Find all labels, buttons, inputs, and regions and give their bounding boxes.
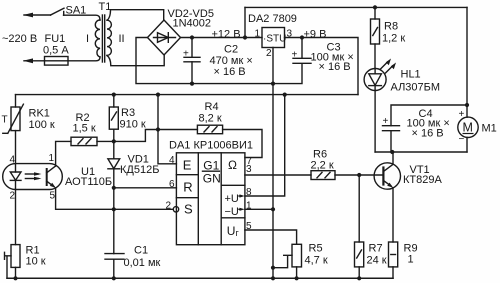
capacitor C4: [383, 126, 400, 152]
wire: secondary top to bridge top vertex: [107, 10, 164, 21]
svg-text:КД512Б: КД512Б: [120, 164, 159, 176]
wire: R7 bottom to bus: [358, 267, 360, 278]
wire: net from R3/R2 junction up to R4 line: [114, 130, 198, 142]
svg-text:24 к: 24 к: [367, 255, 387, 267]
thermistor RK1: [3, 104, 24, 133]
svg-text:2: 2: [10, 191, 16, 202]
resistor R2: [71, 137, 97, 145]
diode VD1: [108, 141, 120, 187]
wire: DA1 pin 1 to ground vertical: [245, 208, 273, 210]
svg-text:−: −: [459, 134, 465, 145]
wire: R5 bottom to bus: [296, 267, 298, 278]
svg-text:1: 1: [408, 254, 414, 266]
svg-text:S: S: [184, 202, 193, 217]
wire: R8 to HL1: [374, 44, 376, 69]
junction C1 at bus: [112, 276, 116, 280]
svg-text:FU1: FU1: [45, 33, 66, 45]
svg-text:1,2 к: 1,2 к: [382, 33, 405, 45]
wire: fuse to primary bottom: [68, 57, 100, 61]
junction VD1/pin6: [112, 186, 116, 190]
fuse FU1: [45, 57, 69, 66]
svg-text:КТ829А: КТ829А: [403, 174, 442, 186]
svg-text:+: +: [383, 116, 389, 127]
wire: riser from +9V bus through R4 node down to DA1 pin 4: [158, 95, 176, 164]
svg-text:+12 В: +12 В: [212, 28, 241, 40]
wire: R6 to base junction: [335, 174, 383, 176]
junction R7 at bus: [357, 276, 361, 280]
wire: DA1 pin 5 to R5: [245, 230, 297, 244]
junction at C2 top: [190, 35, 194, 39]
svg-text:Ω: Ω: [228, 158, 237, 172]
junction R5 at bus: [295, 276, 299, 280]
junction at C3 top: [300, 35, 304, 39]
svg-text:1: 1: [49, 153, 55, 164]
motor M underline: [463, 133, 474, 135]
svg-text:4,7 к: 4,7 к: [305, 255, 328, 267]
wire: C1 top lead: [113, 209, 115, 253]
svg-text:R5: R5: [309, 243, 323, 255]
wire: DA2 pin 2 ground vertical down to bottom bus: [272, 48, 274, 279]
svg-text:2: 2: [166, 201, 172, 212]
svg-text:+: +: [292, 50, 298, 61]
svg-text:C1: C1: [134, 245, 148, 257]
svg-text:10 к: 10 к: [26, 256, 46, 268]
wire: opto pin 1 up to R2: [56, 141, 71, 166]
resistor R5: [292, 244, 302, 267]
svg-text:+: +: [183, 49, 189, 60]
svg-text:RK1: RK1: [29, 108, 50, 120]
capacitor C3: [293, 38, 311, 64]
wire: bridge minus (left vertex) down and along to C3 bottom: [136, 38, 302, 84]
svg-text:1: 1: [255, 29, 261, 40]
wire: R7 top to base junction: [358, 175, 360, 242]
svg-text:SA1: SA1: [66, 4, 87, 16]
switch SA1 contact tick: [63, 12, 65, 16]
LED HL1: [364, 69, 386, 91]
resistor R7: [355, 242, 364, 267]
svg-text:1,5 к: 1,5 к: [73, 123, 96, 135]
junction pin1 ground: [271, 207, 275, 211]
wire: opto pin 2 LED cathode down to R1: [15, 180, 17, 244]
svg-text:0,01 мк: 0,01 мк: [124, 257, 161, 269]
junction pin2/pin5 line: [112, 207, 116, 211]
wire: R9 bottom to bus end: [392, 267, 394, 278]
switch SA1 blade: [51, 8, 65, 15]
svg-text:R: R: [183, 180, 192, 195]
svg-text:1N4002: 1N4002: [173, 17, 212, 29]
svg-text:5: 5: [246, 221, 252, 232]
capacitor C2: [184, 38, 200, 84]
junction ground vertical at bus: [271, 276, 275, 280]
svg-text:T1: T1: [99, 1, 112, 13]
HL1 emission arrows: [381, 59, 397, 74]
resistor R4: [197, 125, 222, 134]
resistor R6: [311, 171, 335, 180]
wire: R2 right to R3 net: [97, 140, 114, 142]
svg-text:I: I: [86, 33, 89, 45]
junction at R8 top: [373, 5, 377, 9]
optocoupler U1 LED: [10, 172, 21, 180]
svg-text:АЛ307БМ: АЛ307БМ: [391, 82, 441, 94]
resistor R1: [11, 245, 20, 268]
resistor R8: [371, 7, 380, 44]
svg-text:4: 4: [169, 155, 175, 166]
voltage regulator DA2 7809 box: [262, 28, 285, 48]
junction R2/R3/VD1: [112, 139, 116, 143]
optocoupler light arrows: [25, 172, 41, 180]
wire: vertical between pin6 node and pin2 node: [113, 188, 115, 210]
wire: bottom common bus: [7, 277, 393, 279]
junction at R4 riser: [156, 93, 160, 97]
svg-text:8: 8: [246, 187, 252, 198]
junction at DA2 pin2 ground line: [271, 82, 275, 86]
wire: R4 right down to DA1 pin 7: [223, 130, 262, 158]
svg-text:8,2 к: 8,2 к: [199, 113, 222, 125]
junction collector/C4: [390, 150, 394, 154]
wire: mains bottom line with arrow (to fuse): [23, 58, 45, 63]
svg-text:GN: GN: [203, 171, 221, 185]
svg-text:5: 5: [50, 191, 56, 202]
wire: to DA1 pin 6: [114, 187, 177, 189]
svg-text:× 16 В: × 16 В: [319, 61, 351, 73]
wire: DA1 pin 8 right and up to +9V bus: [245, 95, 285, 196]
svg-text:+9 В: +9 В: [304, 28, 327, 40]
svg-text:G1: G1: [203, 158, 219, 172]
svg-text:R8: R8: [384, 21, 398, 33]
svg-text:·STU: ·STU: [263, 34, 286, 45]
junction at DA1 pin8 riser: [283, 93, 287, 97]
svg-text:3: 3: [246, 164, 252, 175]
svg-text:II: II: [119, 33, 125, 45]
svg-text:2,2 к: 2,2 к: [311, 160, 334, 172]
svg-text:910 к: 910 к: [120, 118, 146, 130]
wire: secondary bottom to bridge bottom vertex: [107, 55, 164, 65]
wire: RK1 to optocoupler LED anode pin 4: [15, 131, 17, 172]
DA1 -U pin arrow: [239, 208, 245, 211]
junction at C2 bottom: [190, 82, 194, 86]
wire: left vertical to RK1: [15, 95, 17, 107]
transformer T1 primary winding I: [95, 20, 100, 57]
junction R1 at bottom bus: [13, 276, 17, 280]
transformer T1 secondary winding II: [107, 20, 111, 55]
svg-text:АОТ110Б: АОТ110Б: [65, 176, 112, 188]
svg-text:E: E: [183, 157, 192, 172]
svg-text:100 к: 100 к: [29, 119, 55, 131]
timer DA1 KR1006VI1 box: [176, 153, 245, 245]
svg-text:2: 2: [266, 48, 272, 59]
wire: collector line (motor minus rail): [375, 151, 467, 153]
DA1 pin 2 inversion bubble: [173, 207, 178, 212]
svg-text:~220 В: ~220 В: [2, 33, 37, 45]
svg-text:−U: −U: [225, 206, 239, 218]
svg-text:+U: +U: [225, 193, 239, 205]
wire: opto pin 5 down and right to DA1 pin 2: [56, 188, 174, 209]
svg-text:1: 1: [246, 201, 252, 212]
junction R5 tap at ground vertical: [271, 266, 275, 270]
wire: DA2 output +9V to right corner: [285, 38, 359, 95]
wire: VT1 collector up to motor line: [392, 152, 394, 164]
wire: mains top line with arrow: [23, 13, 51, 18]
svg-text:T: T: [2, 115, 8, 126]
wire: switch to transformer primary top: [64, 15, 101, 20]
svg-text:M1: M1: [482, 123, 497, 135]
junction at +12V riser: [243, 35, 247, 39]
svg-text:M: M: [463, 121, 473, 135]
wire: DA1 pin 3 output to R6 and VT1 base: [245, 174, 311, 176]
wire: bridge plus output to DA2 input: [181, 37, 263, 39]
diode inside bridge: [154, 33, 176, 43]
DA1 +U pin arrow: [239, 194, 245, 197]
optocoupler phototransistor: [47, 166, 56, 188]
junction at R3 top: [112, 93, 116, 97]
bridge rectifier VD2-VD5 diamond: [148, 20, 181, 55]
svg-text:4: 4: [10, 155, 16, 166]
svg-text:HL1: HL1: [401, 69, 421, 81]
optocoupler U1 body: [3, 164, 63, 190]
wire: HL1 cathode down to collector line: [374, 91, 376, 153]
svg-text:3: 3: [287, 29, 293, 40]
wire: top +12V bus: [245, 6, 467, 8]
wire: VT1 emitter down to R9: [392, 188, 394, 242]
wire: right vertical from top bus to motor node: [466, 7, 468, 105]
junction base/R7: [357, 173, 361, 177]
svg-text:6: 6: [169, 179, 175, 190]
transformer T1 core: [102, 15, 104, 62]
wire: +9V horizontal bus: [16, 94, 359, 96]
trimmer tap of R1: [5, 252, 12, 278]
transistor VT1: [374, 163, 400, 189]
resistor R3: [109, 95, 118, 142]
motor M1: [458, 105, 478, 152]
resistor R9: [389, 242, 398, 267]
wire: R1 bottom to bus: [15, 267, 17, 278]
wire: C4 top line: [391, 105, 467, 126]
svg-text:× 16 В: × 16 В: [214, 66, 246, 78]
svg-text:R3: R3: [121, 107, 135, 119]
svg-text:0,5 А: 0,5 А: [43, 45, 69, 57]
svg-text:R7: R7: [369, 243, 383, 255]
svg-text:DA2 7809: DA2 7809: [248, 13, 297, 25]
junction at R4 left / riser: [156, 127, 160, 131]
svg-text:DA1 КР1006ВИ1: DA1 КР1006ВИ1: [169, 139, 253, 151]
svg-text:+: +: [459, 109, 465, 120]
svg-text:× 16 В: × 16 В: [412, 128, 444, 140]
svg-text:R4: R4: [205, 101, 219, 113]
wire: +12V riser to top bus: [244, 7, 246, 37]
junction at motor plus node: [465, 103, 469, 107]
capacitor C1: [105, 254, 124, 279]
trimmer tap of R5: [273, 255, 292, 267]
